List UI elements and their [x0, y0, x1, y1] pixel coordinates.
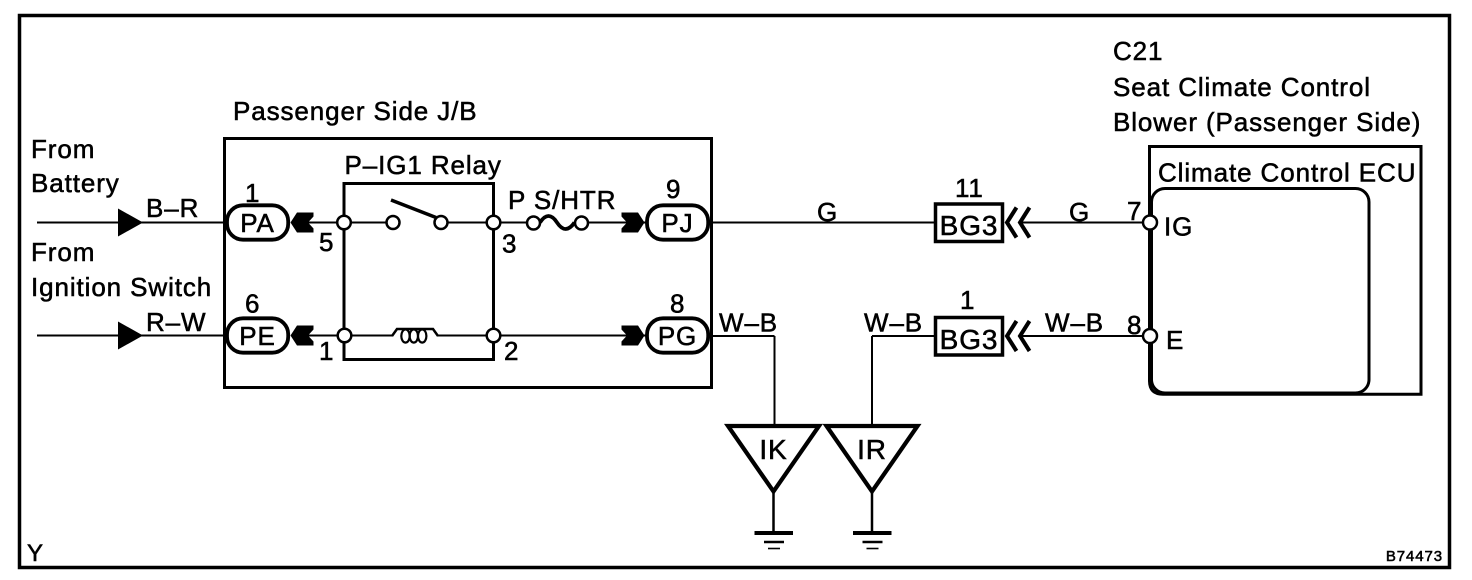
- connector PG: [647, 318, 708, 352]
- switch contact left: [387, 216, 400, 229]
- svg-text:G: G: [817, 197, 838, 227]
- svg-text:6: 6: [245, 289, 260, 319]
- arrow ignition input: [118, 322, 143, 350]
- svg-text:9: 9: [666, 174, 681, 204]
- arrow female at PE: [291, 326, 314, 346]
- ground symbol IR: [853, 531, 892, 535]
- svg-text:11: 11: [955, 173, 984, 203]
- arrow male at PG: [622, 326, 645, 346]
- svg-text:Blower (Passenger Side): Blower (Passenger Side): [1113, 107, 1421, 137]
- fuse P S/HTR: [540, 216, 575, 229]
- svg-text:IK: IK: [759, 434, 787, 465]
- wire PE to coil terminal 1: [300, 335, 393, 337]
- arrow battery input: [118, 209, 143, 237]
- chevrons at BG3 top: [1007, 208, 1017, 238]
- wire G from chevron to ECU pin 7: [1021, 222, 1144, 224]
- relay coil: [392, 329, 438, 336]
- svg-text:Y: Y: [27, 540, 44, 567]
- wire fuse to PJ: [580, 222, 646, 224]
- wire PA to relay terminal 5: [300, 222, 393, 224]
- relay P-IG1 box: [344, 184, 494, 360]
- svg-text:PJ: PJ: [661, 208, 693, 238]
- svg-text:2: 2: [504, 336, 519, 366]
- relay coil terminal 2: [487, 329, 501, 343]
- svg-text:5: 5: [319, 227, 334, 257]
- svg-text:BG3: BG3: [940, 210, 999, 241]
- wire IK to ground: [772, 492, 775, 532]
- svg-text:8: 8: [1127, 310, 1142, 340]
- svg-text:PE: PE: [239, 321, 275, 351]
- ground triangle IK: [728, 426, 819, 492]
- wire coil terminal 2 to PG: [437, 335, 646, 337]
- ground symbol IK: [755, 531, 794, 535]
- connector BG3 bottom: [936, 318, 1003, 356]
- wire W-B down to IK: [774, 336, 776, 427]
- svg-text:IG: IG: [1164, 212, 1193, 242]
- wire W-B from chevron to ECU pin 8: [1021, 335, 1144, 337]
- svg-text:3: 3: [502, 229, 517, 259]
- wire IR to ground: [871, 492, 874, 532]
- svg-text:W–B: W–B: [864, 308, 923, 338]
- relay contact terminal 5: [337, 216, 351, 230]
- svg-text:B74473: B74473: [1386, 548, 1443, 565]
- ECU pin 8 terminal: [1143, 329, 1157, 343]
- arrow female at PA: [291, 213, 314, 233]
- wire W-B up from IR: [871, 336, 873, 427]
- svg-text:E: E: [1166, 325, 1184, 355]
- svg-text:W–B: W–B: [719, 308, 778, 338]
- connector PA: [227, 205, 288, 239]
- svg-text:7: 7: [1127, 196, 1142, 226]
- wire from battery: [37, 222, 240, 224]
- ground triangle IR: [827, 426, 918, 492]
- svg-text:W–B: W–B: [1045, 308, 1104, 338]
- ECU outer box: [1150, 147, 1422, 395]
- relay contact terminal 3: [487, 216, 501, 230]
- svg-text:From: From: [31, 237, 95, 267]
- svg-text:PG: PG: [658, 321, 697, 351]
- wire relay terminal 3 to fuse: [441, 222, 535, 224]
- chevrons at BG3 bottom: [1007, 321, 1017, 351]
- svg-text:PA: PA: [240, 208, 275, 238]
- svg-text:B–R: B–R: [146, 193, 199, 223]
- svg-text:IR: IR: [857, 434, 887, 465]
- relay coil terminal 1: [338, 329, 352, 343]
- arrow male at PJ: [622, 213, 645, 233]
- connector PJ: [647, 205, 708, 239]
- switch contact right: [435, 216, 448, 229]
- connector BG3 top: [936, 204, 1003, 242]
- junction block J/B box: [225, 139, 712, 388]
- svg-text:BG3: BG3: [940, 324, 999, 355]
- svg-text:R–W: R–W: [146, 307, 206, 337]
- svg-text:Passenger Side J/B: Passenger Side J/B: [233, 96, 478, 126]
- svg-text:From: From: [31, 134, 95, 164]
- wire G from PJ to BG3: [712, 222, 935, 224]
- svg-text:8: 8: [670, 289, 685, 319]
- svg-text:1: 1: [960, 285, 975, 315]
- ECU pin 7 terminal: [1143, 216, 1157, 230]
- svg-text:Seat Climate Control: Seat Climate Control: [1113, 72, 1371, 102]
- ECU inner rounded box: [1152, 189, 1370, 394]
- wire from ignition switch: [37, 335, 240, 337]
- svg-text:P S/HTR: P S/HTR: [508, 185, 616, 215]
- svg-text:P–IG1 Relay: P–IG1 Relay: [345, 150, 502, 180]
- svg-text:G: G: [1069, 197, 1090, 227]
- svg-text:Climate Control ECU: Climate Control ECU: [1158, 158, 1416, 188]
- connector PE: [227, 318, 288, 352]
- svg-text:Ignition Switch: Ignition Switch: [31, 272, 212, 302]
- svg-text:1: 1: [319, 336, 334, 366]
- wire W-B from PG horizontal: [713, 335, 775, 337]
- svg-text:Battery: Battery: [31, 168, 120, 198]
- wire W-B from IR to BG3: [872, 335, 935, 337]
- svg-text:C21: C21: [1113, 36, 1163, 66]
- switch blade: [391, 200, 436, 218]
